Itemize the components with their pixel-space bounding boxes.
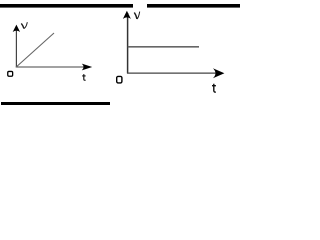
top border line right segment <box>147 4 240 8</box>
left graph: v-axis line <box>15 27 17 67</box>
left graph: diagonal velocity line <box>16 33 54 67</box>
left graph: v-axis arrowhead <box>13 25 20 32</box>
left graph: t label <box>82 74 85 80</box>
right graph: v label <box>134 12 139 19</box>
right graph: v-axis line <box>127 13 129 73</box>
right graph: t label <box>212 84 216 92</box>
right graph: origin 0 label <box>117 76 122 83</box>
left graph: v label <box>21 22 27 28</box>
left graph: t-axis arrowhead <box>82 64 92 71</box>
right graph: t-axis line <box>127 72 216 74</box>
bottom border line <box>1 102 110 105</box>
right graph: constant velocity line <box>128 46 199 48</box>
left graph: origin o label <box>8 71 13 76</box>
right graph: t-axis arrowhead <box>213 68 225 78</box>
top border line left segment <box>0 4 133 8</box>
left graph: t-axis line <box>16 66 84 68</box>
right graph: v-axis arrowhead <box>123 11 131 19</box>
